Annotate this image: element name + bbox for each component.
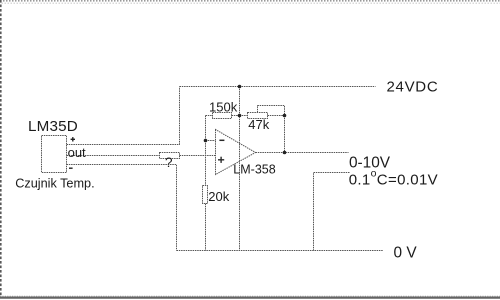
svg-text:20k: 20k (208, 189, 229, 204)
op-amp U1 LM-358 triangle (216, 130, 256, 175)
wire: node A vertical 150k to 20k (205, 116, 207, 186)
junction dot output node (283, 151, 287, 155)
wire: 150k right lead (232, 115, 240, 117)
wire: sensor - pin down to 0V rail (67, 165, 177, 251)
wire: 150k left lead (206, 115, 213, 117)
svg-text:LM-358: LM-358 (233, 163, 275, 177)
junction dot rail/supply (238, 85, 242, 89)
resistor R 150k body (213, 113, 232, 119)
label sensor - pin (69, 167, 73, 169)
junction dot inverting node (204, 139, 208, 143)
wire: 47k left lead (240, 115, 248, 117)
wire: op-amp supply vertical from 24VDC to 0V (239, 87, 241, 251)
junction dot 47k right node (283, 114, 287, 118)
wire: feedback vertical to output (284, 116, 286, 153)
resistor R 47k body (248, 113, 268, 119)
border frame top dotted (0, 1, 500, 3)
resistor R 20k body (203, 186, 208, 204)
svg-text:47k: 47k (248, 117, 269, 132)
svg-text:0 V: 0 V (394, 245, 418, 262)
wire: 0V bottom rail (177, 250, 384, 252)
svg-text:?: ? (165, 155, 173, 170)
sensor U2 LM35D body (42, 136, 67, 173)
wire: 47k wiper loop (258, 106, 285, 116)
op-amp non-inverting input symbol (218, 157, 224, 163)
resistor R? (calibration) (160, 153, 180, 159)
wire: ? resistor to op-amp + input (180, 155, 216, 157)
border frame left dashed (0, 0, 2, 297)
wire: inverting input stub (206, 140, 216, 142)
wire: op-amp output (256, 152, 349, 154)
svg-text:150k: 150k (209, 99, 238, 114)
svg-text:LM35D: LM35D (28, 118, 78, 135)
wire: 20k bottom to 0V rail (205, 204, 207, 251)
border frame bottom (0, 296, 500, 297)
label sensor + pin (71, 137, 75, 141)
wire: 24VDC top rail (180, 86, 376, 88)
op-amp inverting input symbol (219, 139, 224, 141)
wire: annotation leader 0.1C (314, 173, 350, 251)
junction dot 150k/47k node (238, 114, 242, 118)
svg-text:0.1oC=0.01V: 0.1oC=0.01V (349, 168, 438, 189)
svg-text:Czujnik Temp.: Czujnik Temp. (15, 176, 94, 190)
wire: 47k right lead (268, 115, 285, 117)
svg-text:24VDC: 24VDC (387, 79, 439, 96)
wire: sensor out to ? resistor (67, 155, 160, 157)
wire: sensor + pin up to rail (67, 87, 180, 145)
svg-text:out: out (68, 145, 86, 160)
